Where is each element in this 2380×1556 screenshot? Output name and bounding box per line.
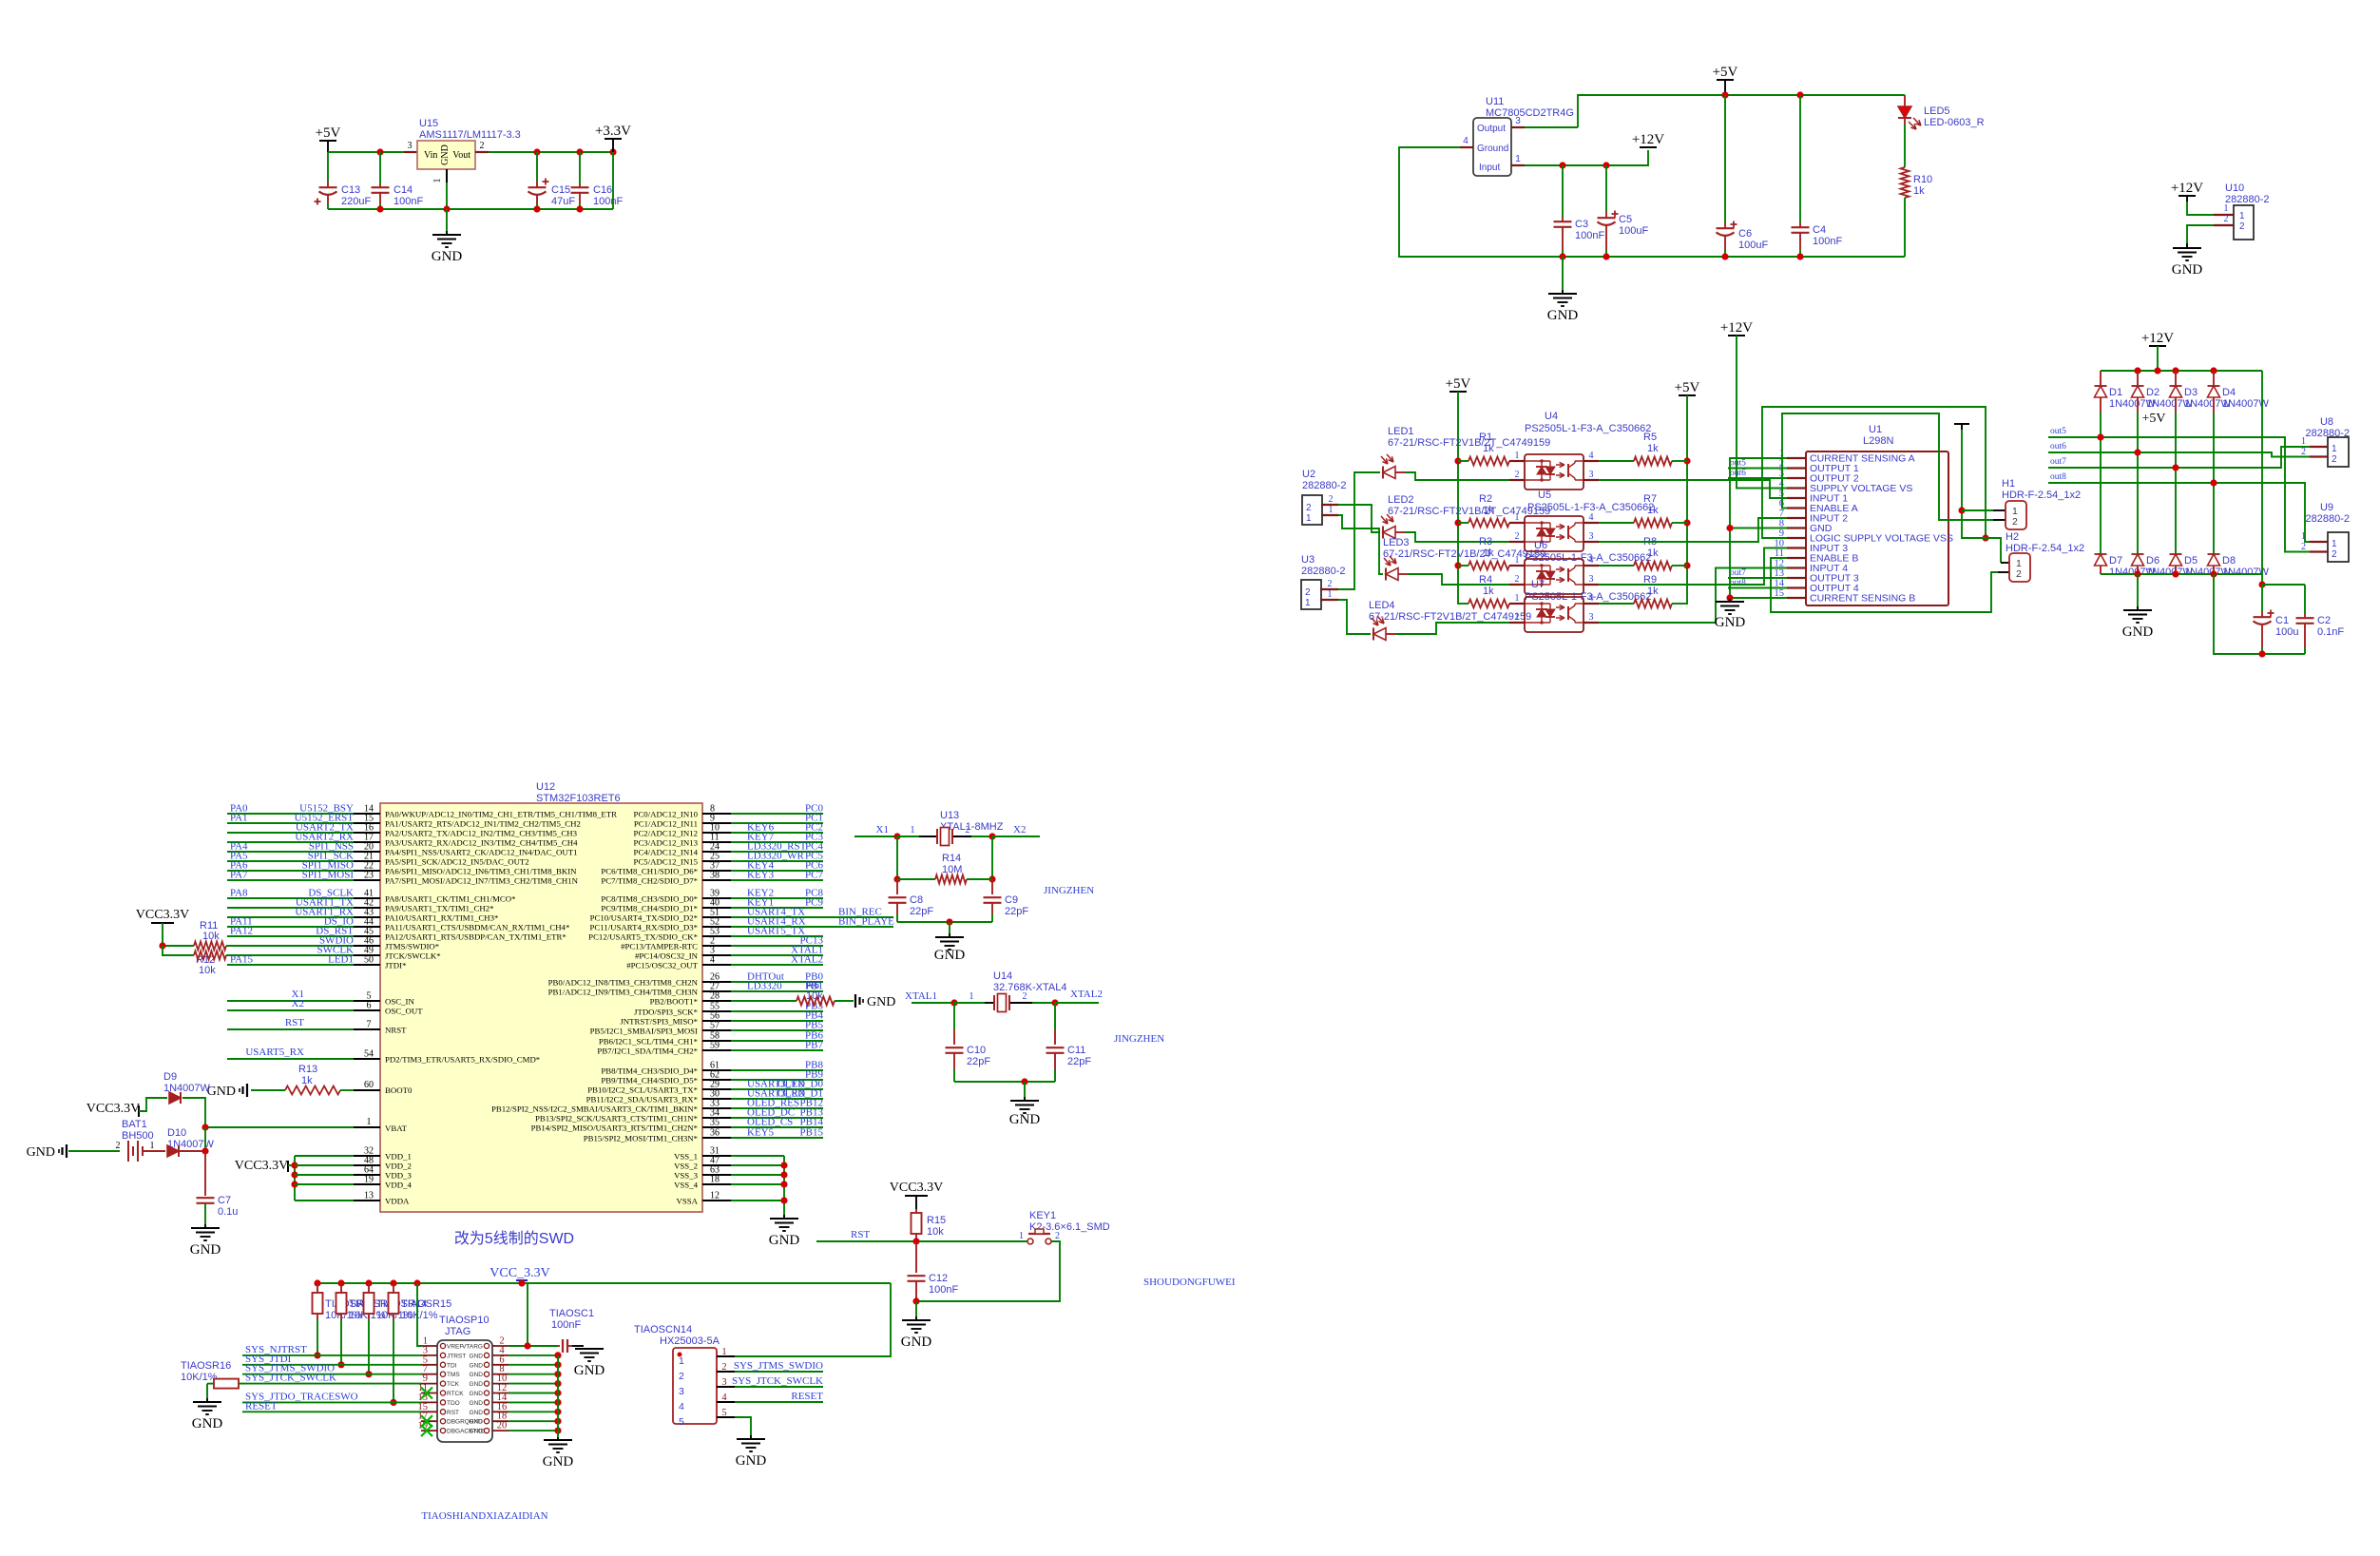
U12 pin 7 wire (RST) <box>227 1028 354 1030</box>
U12 pin 41 wire (DS_SCLK) <box>227 897 354 899</box>
wire U4 pin3 to U1 INPUT1 <box>1599 480 1787 498</box>
svg-text:C3: C3 <box>1575 219 1588 230</box>
svg-text:1: 1 <box>2332 444 2337 454</box>
diode D3 1N4007W <box>2175 371 2177 386</box>
ground symbol of regulator section <box>446 209 448 231</box>
svg-text:GND: GND <box>470 1429 484 1435</box>
U10 pin 1 wire from +12V <box>2186 196 2188 202</box>
U12 pin 21 wire (SPI1_SCK) <box>227 860 354 862</box>
U1 pin 6 ENABLE A <box>1787 507 1806 509</box>
svg-text:67-21/RSC-FT2V1B/2T_C4749159: 67-21/RSC-FT2V1B/2T_C4749159 <box>1388 506 1550 517</box>
capacitor C13 220uF <box>327 152 329 182</box>
svg-text:1: 1 <box>150 1141 155 1151</box>
svg-text:+12V: +12V <box>2141 331 2174 346</box>
svg-text:67-21/RSC-FT2V1B/2T_C4749159: 67-21/RSC-FT2V1B/2T_C4749159 <box>1383 548 1545 560</box>
U12 pin 19 VDD_4 <box>295 1183 354 1185</box>
resistor R6 10k on PB2/BOOT1 <box>731 1000 797 1002</box>
svg-text:U7: U7 <box>1531 579 1545 590</box>
wire U3 pin1 to LED4 <box>1338 600 1371 634</box>
svg-text:R13: R13 <box>298 1064 317 1075</box>
svg-text:4: 4 <box>679 1401 684 1412</box>
U4 pin stubs and numbers <box>1509 460 1525 462</box>
wire +5V rail to U15 Vin <box>328 151 404 153</box>
wire TIAOSR12 to JTAG row <box>317 1314 318 1319</box>
svg-text:VDD_4: VDD_4 <box>385 1181 412 1190</box>
svg-text:RESET: RESET <box>245 1400 278 1412</box>
svg-text:1k: 1k <box>1483 443 1494 454</box>
svg-text:4: 4 <box>710 955 715 966</box>
TIAOSP10 pin 4 GND <box>492 1354 509 1356</box>
U1 pin 2 OUTPUT 1 <box>1787 467 1806 469</box>
wire U15 Vout to +3.3V <box>489 151 613 153</box>
wire U3 pin2 up to LED1 <box>1338 472 1380 589</box>
svg-text:HX25003-5A: HX25003-5A <box>660 1335 720 1347</box>
svg-text:100nF: 100nF <box>929 1284 958 1296</box>
svg-text:X2: X2 <box>292 998 304 1009</box>
svg-text:Input: Input <box>1479 163 1500 173</box>
diode D8 1N4007W <box>2208 553 2220 555</box>
TIAOSP10 pin 10 GND <box>492 1383 509 1385</box>
power flag +3.3V <box>605 138 622 140</box>
svg-text:SYS_JTMS_SWDIO: SYS_JTMS_SWDIO <box>734 1360 823 1372</box>
svg-text:282880-2: 282880-2 <box>2225 194 2270 205</box>
svg-text:PB1/ADC12_IN9/TIM3_CH4/TIM8_CH: PB1/ADC12_IN9/TIM3_CH4/TIM8_CH3N <box>548 988 699 997</box>
svg-text:282880-2: 282880-2 <box>1301 566 1346 577</box>
capacitor C12 100nF <box>915 1241 917 1273</box>
svg-text:out8: out8 <box>1730 579 1746 588</box>
svg-text:XTAL1: XTAL1 <box>905 990 937 1002</box>
TIAOSP10 pin 7 TMS <box>421 1374 437 1375</box>
svg-text:TDI: TDI <box>447 1362 457 1369</box>
wire U1 ENABLE A over box to H1 pin2 <box>1782 413 1993 520</box>
svg-text:1: 1 <box>1329 505 1334 515</box>
svg-text:PA15: PA15 <box>230 954 254 966</box>
TIAOSP10 pin 8 GND <box>492 1374 509 1375</box>
svg-text:1k: 1k <box>301 1075 313 1086</box>
svg-text:1: 1 <box>969 991 974 1002</box>
capacitor C1 100u polarized <box>2258 581 2265 587</box>
svg-text:#PC14/OSC32_IN: #PC14/OSC32_IN <box>635 951 699 961</box>
svg-text:D8: D8 <box>2222 555 2236 567</box>
U12 pin 15 wire (U5152_ERST) <box>227 822 354 824</box>
svg-text:35: 35 <box>710 1118 720 1128</box>
svg-text:PA1/USART2_RTS/ADC12_IN1/TIM2_: PA1/USART2_RTS/ADC12_IN1/TIM2_CH2/TIM5_C… <box>385 819 581 829</box>
svg-text:282880-2: 282880-2 <box>1302 480 1347 491</box>
svg-text:out6: out6 <box>2050 442 2066 451</box>
ground rail of 32k crystal <box>954 1081 1055 1083</box>
svg-text:1: 1 <box>1515 512 1520 523</box>
VSS common column to GND <box>783 1156 785 1215</box>
svg-text:BOOT0: BOOT0 <box>385 1085 413 1095</box>
wire SYS_JTMS_SWDIO to TIAOSCN14 pin2 <box>735 1371 823 1373</box>
capacitor C11 22pF <box>1054 1003 1056 1029</box>
wire SYS_JTCK_SWCLK <box>242 1383 421 1385</box>
svg-text:0.1nF: 0.1nF <box>2317 626 2344 638</box>
junction dots on JTAG rail <box>314 1279 320 1286</box>
svg-text:67-21/RSC-FT2V1B/2T_C4749159: 67-21/RSC-FT2V1B/2T_C4749159 <box>1369 611 1531 623</box>
svg-text:JINGZHEN: JINGZHEN <box>1044 885 1094 896</box>
svg-text:VSSA: VSSA <box>677 1197 699 1206</box>
svg-text:D7: D7 <box>2109 555 2122 567</box>
svg-text:1: 1 <box>1515 451 1520 461</box>
svg-text:R15: R15 <box>927 1215 946 1226</box>
svg-text:RTCK: RTCK <box>447 1391 464 1397</box>
svg-text:PB12/SPI2_NSS/I2C2_SMBAI/USART: PB12/SPI2_NSS/I2C2_SMBAI/USART3_CK/TIM1_… <box>491 1105 698 1114</box>
svg-text:3: 3 <box>1515 116 1521 126</box>
wire SYS_NJTRST <box>242 1354 421 1356</box>
resistor TIAOSR12 10K/1% <box>317 1283 318 1293</box>
svg-text:60: 60 <box>364 1080 374 1090</box>
no-connect X on pins 11 17 19 <box>421 1388 432 1399</box>
wire U5 pin3 to U1 INPUT2 <box>1599 518 1787 542</box>
svg-text:2: 2 <box>1328 579 1333 589</box>
svg-text:PA8/USART1_CK/TIM1_CH1/MCO*: PA8/USART1_CK/TIM1_CH1/MCO* <box>385 894 515 904</box>
svg-text:VDDA: VDDA <box>385 1197 410 1206</box>
svg-text:JTDI*: JTDI* <box>385 961 406 970</box>
svg-text:GND: GND <box>2122 624 2154 640</box>
svg-text:PB2/BOOT1*: PB2/BOOT1* <box>650 997 698 1007</box>
svg-text:10K/1%: 10K/1% <box>181 1372 218 1383</box>
svg-text:1: 1 <box>1019 1231 1024 1241</box>
svg-text:LED-0603_R: LED-0603_R <box>1924 117 1985 128</box>
svg-text:2: 2 <box>1305 587 1311 598</box>
U12 pin 6 wire (X2) <box>227 1009 354 1011</box>
wire RESET <box>242 1411 421 1412</box>
svg-text:VSS_1: VSS_1 <box>674 1152 698 1162</box>
svg-text:out5: out5 <box>2050 427 2066 436</box>
svg-text:282880-2: 282880-2 <box>2306 513 2351 525</box>
svg-text:LED2: LED2 <box>1388 494 1414 506</box>
svg-text:100nF: 100nF <box>1813 236 1842 247</box>
diode D2 1N4007W <box>2137 371 2139 386</box>
svg-text:PA10/USART1_RX/TIM1_CH3*: PA10/USART1_RX/TIM1_CH3* <box>385 913 498 923</box>
svg-text:TIAOSHIANDXIAZAIDIAN: TIAOSHIANDXIAZAIDIAN <box>421 1510 547 1522</box>
svg-text:U8: U8 <box>2320 416 2333 428</box>
svg-text:XTAL2: XTAL2 <box>791 954 823 966</box>
U12 pin 22 wire (SPI1_MISO) <box>227 870 354 872</box>
svg-text:GND: GND <box>1715 615 1746 630</box>
svg-text:C8: C8 <box>910 894 923 906</box>
no-connect T bar above H1 <box>1954 423 1969 425</box>
svg-text:X2: X2 <box>1013 824 1026 836</box>
svg-text:D3: D3 <box>2184 387 2198 398</box>
svg-text:PC10/USART4_TX/SDIO_D2*: PC10/USART4_TX/SDIO_D2* <box>590 913 698 923</box>
svg-text:PB7: PB7 <box>805 1040 823 1051</box>
U12 pin 14 wire (U5152_BSY) <box>227 813 354 815</box>
junction dots on +5V rail <box>1721 91 1728 98</box>
U6 pin stubs and numbers <box>1509 565 1525 567</box>
svg-text:out7: out7 <box>2050 457 2066 467</box>
TIAOSP10 pin 2 VTARG <box>492 1345 509 1347</box>
svg-text:PA7/SPI1_MOSI/ADC12_IN7/TIM3_C: PA7/SPI1_MOSI/ADC12_IN7/TIM3_CH2/TIM8_CH… <box>385 876 579 886</box>
resistor R1 1k <box>1458 460 1468 462</box>
svg-text:R5: R5 <box>1643 432 1657 443</box>
svg-text:out8: out8 <box>2050 472 2066 482</box>
svg-text:+12V: +12V <box>1720 320 1753 336</box>
svg-text:PA2/USART2_TX/ADC12_IN2/TIM2_C: PA2/USART2_TX/ADC12_IN2/TIM2_CH3/TIM5_CH… <box>385 829 578 838</box>
U1 pin 5 INPUT 1 <box>1787 497 1806 499</box>
right rail x2380 from +12V rail down to C1 <box>2261 371 2263 585</box>
svg-text:LD3320: LD3320 <box>747 981 782 992</box>
svg-text:TIAOSCN14: TIAOSCN14 <box>634 1324 692 1335</box>
svg-text:PB13/SPI2_SCK/USART3_CTS/TIM1_: PB13/SPI2_SCK/USART3_CTS/TIM1_CH1N* <box>535 1114 698 1124</box>
diode D6 1N4007W <box>2132 553 2144 555</box>
svg-text:H1: H1 <box>2002 478 2015 490</box>
svg-text:+5V: +5V <box>1675 380 1700 395</box>
svg-text:TIAOSR16: TIAOSR16 <box>181 1360 231 1372</box>
svg-text:2: 2 <box>2012 516 2018 528</box>
svg-text:U6: U6 <box>1534 540 1547 551</box>
svg-text:GND: GND <box>1009 1112 1041 1127</box>
wire JTAG pin2 VTARG to cap and rail <box>509 1345 557 1347</box>
svg-text:U2: U2 <box>1302 469 1315 480</box>
wire column D3 <box>2175 413 2177 554</box>
resistor R15 10k <box>915 1209 917 1214</box>
svg-text:22pF: 22pF <box>967 1056 990 1067</box>
svg-text:1: 1 <box>1515 555 1520 566</box>
wire U2 pin2 to LED2 <box>1338 505 1380 532</box>
svg-text:GND: GND <box>736 1453 767 1469</box>
svg-text:6: 6 <box>367 1001 372 1011</box>
svg-text:VREF: VREF <box>447 1344 463 1351</box>
svg-text:C13: C13 <box>341 184 360 196</box>
U12 pin 23 wire (SPI1_MOSI) <box>227 879 354 881</box>
svg-text:PA12/USART1_RTS/USBDP/CAN_TX/T: PA12/USART1_RTS/USBDP/CAN_TX/TIM1_ETR* <box>385 932 566 942</box>
TIAOSP10 pin 17 DBGRQRXD <box>421 1420 437 1422</box>
svg-text:JNTRST/SPI3_MISO*: JNTRST/SPI3_MISO* <box>620 1017 698 1027</box>
svg-text:36: 36 <box>710 1128 720 1139</box>
bottom rail of diode matrix <box>2101 573 2262 575</box>
wire TIAOSCN14 pin1 to VCC rail <box>735 1283 891 1356</box>
U12 pin 32 VDD_1 <box>295 1155 354 1157</box>
U12 pin 54 wire (USART5_RX) <box>227 1058 354 1060</box>
ground symbol at C12 <box>902 1319 931 1321</box>
wire column D4 <box>2213 413 2215 554</box>
diode D5 1N4007W <box>2170 553 2182 555</box>
svg-text:PS2505L-1-F3-A_C350662: PS2505L-1-F3-A_C350662 <box>1525 423 1651 434</box>
svg-text:3: 3 <box>721 1377 726 1388</box>
+5V output rail wire <box>1578 95 1905 127</box>
U12 pin 45 wire (DS_RST) <box>227 935 354 937</box>
U12 pin 46 wire (SWDIO) <box>227 945 354 947</box>
svg-text:12: 12 <box>710 1191 720 1201</box>
power flag +12V (diode matrix) <box>2149 345 2166 347</box>
svg-text:C7: C7 <box>218 1195 231 1206</box>
VDD feed column <box>294 1156 296 1201</box>
capacitor C5 100uF polarized <box>1605 165 1607 211</box>
wire SYS_JTMS_SWDIO <box>242 1374 421 1375</box>
svg-text:RST: RST <box>447 1410 459 1416</box>
svg-text:2: 2 <box>2301 447 2306 457</box>
capacitor C2 0.1nF <box>2262 584 2305 586</box>
svg-text:GND: GND <box>470 1400 484 1407</box>
svg-text:RESET: RESET <box>791 1391 823 1402</box>
junction dots on GND rail <box>376 205 383 212</box>
U12 pin 16 wire (USART2_TX) <box>227 832 354 834</box>
svg-text:PB15/SPI2_MOSI/TIM1_CH3N*: PB15/SPI2_MOSI/TIM1_CH3N* <box>584 1134 698 1143</box>
svg-text:U15: U15 <box>419 118 438 129</box>
svg-text:PC7: PC7 <box>805 870 823 881</box>
svg-text:PB5/I2C1_SMBAI/SPI3_MOSI: PB5/I2C1_SMBAI/SPI3_MOSI <box>590 1027 698 1036</box>
svg-text:1: 1 <box>2224 203 2229 214</box>
svg-text:PA3/USART2_RX/ADC12_IN3/TIM2_C: PA3/USART2_RX/ADC12_IN3/TIM2_CH4/TIM5_CH… <box>385 838 578 848</box>
svg-text:2: 2 <box>2332 549 2337 560</box>
svg-text:PA11/USART1_CTS/USBDM/CAN_RX/T: PA11/USART1_CTS/USBDM/CAN_RX/TIM1_CH4* <box>385 923 569 932</box>
svg-text:PC5/ADC12_IN15: PC5/ADC12_IN15 <box>634 857 699 867</box>
svg-text:22pF: 22pF <box>910 906 933 917</box>
svg-text:GND: GND <box>192 1416 223 1431</box>
svg-text:out6: out6 <box>1730 469 1746 478</box>
svg-text:Ground: Ground <box>1477 144 1508 154</box>
TIAOSP10 pin 20 GND <box>492 1430 509 1431</box>
svg-text:U1: U1 <box>1869 424 1882 435</box>
U1 pin 10 INPUT 3 <box>1787 547 1806 548</box>
svg-text:TDO: TDO <box>447 1400 460 1407</box>
svg-text:C1: C1 <box>2275 615 2289 626</box>
capacitor C16 100nF <box>579 152 581 184</box>
svg-text:10k: 10k <box>199 965 216 976</box>
svg-text:D6: D6 <box>2146 555 2159 567</box>
svg-text:SHOUDONGFUWEI: SHOUDONGFUWEI <box>1143 1277 1236 1288</box>
svg-text:5: 5 <box>721 1408 726 1418</box>
junction dots on +5V column 1 <box>1454 457 1461 464</box>
TIAOSP10 pin 6 GND <box>492 1364 509 1366</box>
U12 pin 5 wire (X1) <box>227 1000 354 1002</box>
resistor R3 1k <box>1458 565 1468 567</box>
svg-text:C2: C2 <box>2317 615 2331 626</box>
wire LED3 to U6 pin2 <box>1398 573 1408 575</box>
svg-text:out7: out7 <box>1730 568 1746 578</box>
svg-text:PC8/TIM8_CH3/SDIO_D0*: PC8/TIM8_CH3/SDIO_D0* <box>601 894 698 904</box>
svg-text:PC2/ADC12_IN12: PC2/ADC12_IN12 <box>634 829 698 838</box>
svg-text:PB9/TIM4_CH4/SDIO_D5*: PB9/TIM4_CH4/SDIO_D5* <box>601 1076 698 1085</box>
TIAOSP10 pin 14 GND <box>492 1401 509 1403</box>
svg-text:VDD_3: VDD_3 <box>385 1171 412 1181</box>
TIAOSP10 pin 16 GND <box>492 1411 509 1412</box>
svg-text:#PC13/TAMPER-RTC: #PC13/TAMPER-RTC <box>621 942 698 951</box>
svg-text:57: 57 <box>710 1021 720 1031</box>
U1 pin 4 SUPPLY VOLTAGE VS <box>1787 487 1806 489</box>
ground symbol at U10 <box>2173 247 2201 249</box>
svg-text:U12: U12 <box>536 781 555 793</box>
svg-text:2: 2 <box>966 825 970 836</box>
svg-text:BAT1: BAT1 <box>122 1119 147 1130</box>
ground symbol of diode matrix <box>2137 574 2139 606</box>
svg-text:2: 2 <box>1515 531 1520 542</box>
svg-text:3: 3 <box>1589 531 1594 542</box>
svg-text:OSC_OUT: OSC_OUT <box>385 1007 423 1016</box>
svg-text:VBAT: VBAT <box>385 1124 408 1133</box>
svg-text:D10: D10 <box>167 1127 186 1139</box>
svg-text:AMS1117/LM1117-3.3: AMS1117/LM1117-3.3 <box>419 129 521 141</box>
svg-text:1k: 1k <box>1647 547 1659 559</box>
resistor TIAOSR13 10K/1% <box>340 1283 342 1293</box>
svg-text:PC7/TIM8_CH2/SDIO_D7*: PC7/TIM8_CH2/SDIO_D7* <box>601 876 698 886</box>
U7 pin stubs and numbers <box>1509 603 1525 605</box>
svg-text:GND: GND <box>1547 308 1579 323</box>
junction dots on 7805 GND rail <box>1559 253 1565 259</box>
svg-text:4: 4 <box>1589 451 1594 461</box>
svg-text:PA5/SPI1_SCK/ADC12_IN5/DAC_OUT: PA5/SPI1_SCK/ADC12_IN5/DAC_OUT2 <box>385 857 529 867</box>
svg-text:1k: 1k <box>1647 505 1659 516</box>
svg-text:28: 28 <box>710 991 720 1002</box>
svg-text:PC0/ADC12_IN10: PC0/ADC12_IN10 <box>634 810 699 819</box>
svg-text:GND: GND <box>574 1363 605 1378</box>
svg-text:PB11/I2C2_SDA/USART3_RX*: PB11/I2C2_SDA/USART3_RX* <box>586 1095 698 1105</box>
svg-text:C5: C5 <box>1619 214 1632 225</box>
svg-text:+5V: +5V <box>1713 65 1738 80</box>
svg-text:+3.3V: +3.3V <box>595 124 631 139</box>
svg-text:100nF: 100nF <box>1575 230 1604 241</box>
pin 1 Input wire to +12V <box>1511 164 1525 166</box>
svg-text:TIAOSP10: TIAOSP10 <box>439 1315 489 1326</box>
GND tap at R6 <box>854 994 856 1008</box>
wire LED4 to U7 pin2 <box>1386 633 1395 635</box>
wire LED2 to U5 pin2 <box>1395 531 1405 533</box>
VCC_3.3V rail of JTAG section <box>317 1282 891 1284</box>
svg-text:5: 5 <box>679 1416 684 1428</box>
svg-text:R7: R7 <box>1643 493 1657 505</box>
wire +12V to L298N pin 4 <box>1737 336 1787 489</box>
svg-text:JTAG: JTAG <box>445 1326 470 1337</box>
power flag +12V (U10 connector) <box>2178 195 2196 197</box>
svg-text:PD2/TIM3_ETR/USART5_RX/SDIO_CM: PD2/TIM3_ETR/USART5_RX/SDIO_CMD* <box>385 1055 540 1065</box>
diode D7 1N4007W <box>2095 553 2107 555</box>
svg-text:KEY5: KEY5 <box>747 1127 775 1139</box>
capacitor C14 100nF <box>379 152 381 184</box>
svg-text:JINGZHEN: JINGZHEN <box>1114 1033 1164 1045</box>
power flag +5V (regulator AMS1117 input) <box>319 140 336 142</box>
wire U1 LOGIC VSS loop to H1 pin1 / H2 pin1 <box>1762 407 1986 538</box>
svg-text:1: 1 <box>2332 539 2337 549</box>
svg-text:VSS_2: VSS_2 <box>674 1162 698 1171</box>
wire out5 row <box>2048 437 2310 552</box>
svg-text:47uF: 47uF <box>551 196 575 207</box>
svg-text:GND: GND <box>934 948 966 963</box>
TIAOSP10 pin 19 DBGACKTXD <box>421 1430 437 1431</box>
svg-text:100uF: 100uF <box>1619 225 1648 237</box>
svg-text:RST: RST <box>285 1017 304 1028</box>
power flag +12V (7805 input) <box>1640 146 1657 148</box>
TIAOSP10 pin 11 RTCK <box>421 1393 437 1394</box>
+12V top rail of diode matrix <box>2101 370 2262 372</box>
svg-text:+5V: +5V <box>1446 376 1471 392</box>
svg-text:PA6/SPI1_MISO/ADC12_IN6/TIM3_C: PA6/SPI1_MISO/ADC12_IN6/TIM3_CH1/TIM8_BK… <box>385 867 577 876</box>
svg-text:0.1u: 0.1u <box>218 1206 238 1218</box>
resistor R8 1k <box>1599 565 1634 567</box>
U1 pin 11 ENABLE B <box>1787 557 1806 559</box>
U1 pin 9 LOGIC SUPPLY VOLTAGE VSS <box>1787 537 1806 539</box>
svg-text:C9: C9 <box>1005 894 1018 906</box>
svg-text:LED3: LED3 <box>1383 537 1410 548</box>
svg-text:GND: GND <box>207 1085 236 1099</box>
resistor R10 1k <box>1904 118 1906 125</box>
svg-text:VSS_4: VSS_4 <box>674 1181 699 1190</box>
svg-text:2: 2 <box>116 1141 121 1151</box>
svg-text:2: 2 <box>679 1371 684 1382</box>
svg-text:GND: GND <box>470 1391 484 1397</box>
capacitor C6 100uF polarized <box>1724 95 1726 222</box>
svg-text:2: 2 <box>2301 542 2306 552</box>
svg-text:GND: GND <box>470 1419 484 1426</box>
capacitor C8 22pF <box>896 879 898 894</box>
svg-text:C6: C6 <box>1738 228 1752 240</box>
wire U7 pin3 to U1 INPUT4 <box>1599 568 1787 624</box>
diode D4 1N4007W <box>2213 371 2215 386</box>
power flag +5V (opto collector column 2) <box>1679 394 1696 396</box>
bottom wire from D8 column to C1/C2 <box>2214 574 2305 654</box>
svg-text:Output: Output <box>1477 124 1506 134</box>
